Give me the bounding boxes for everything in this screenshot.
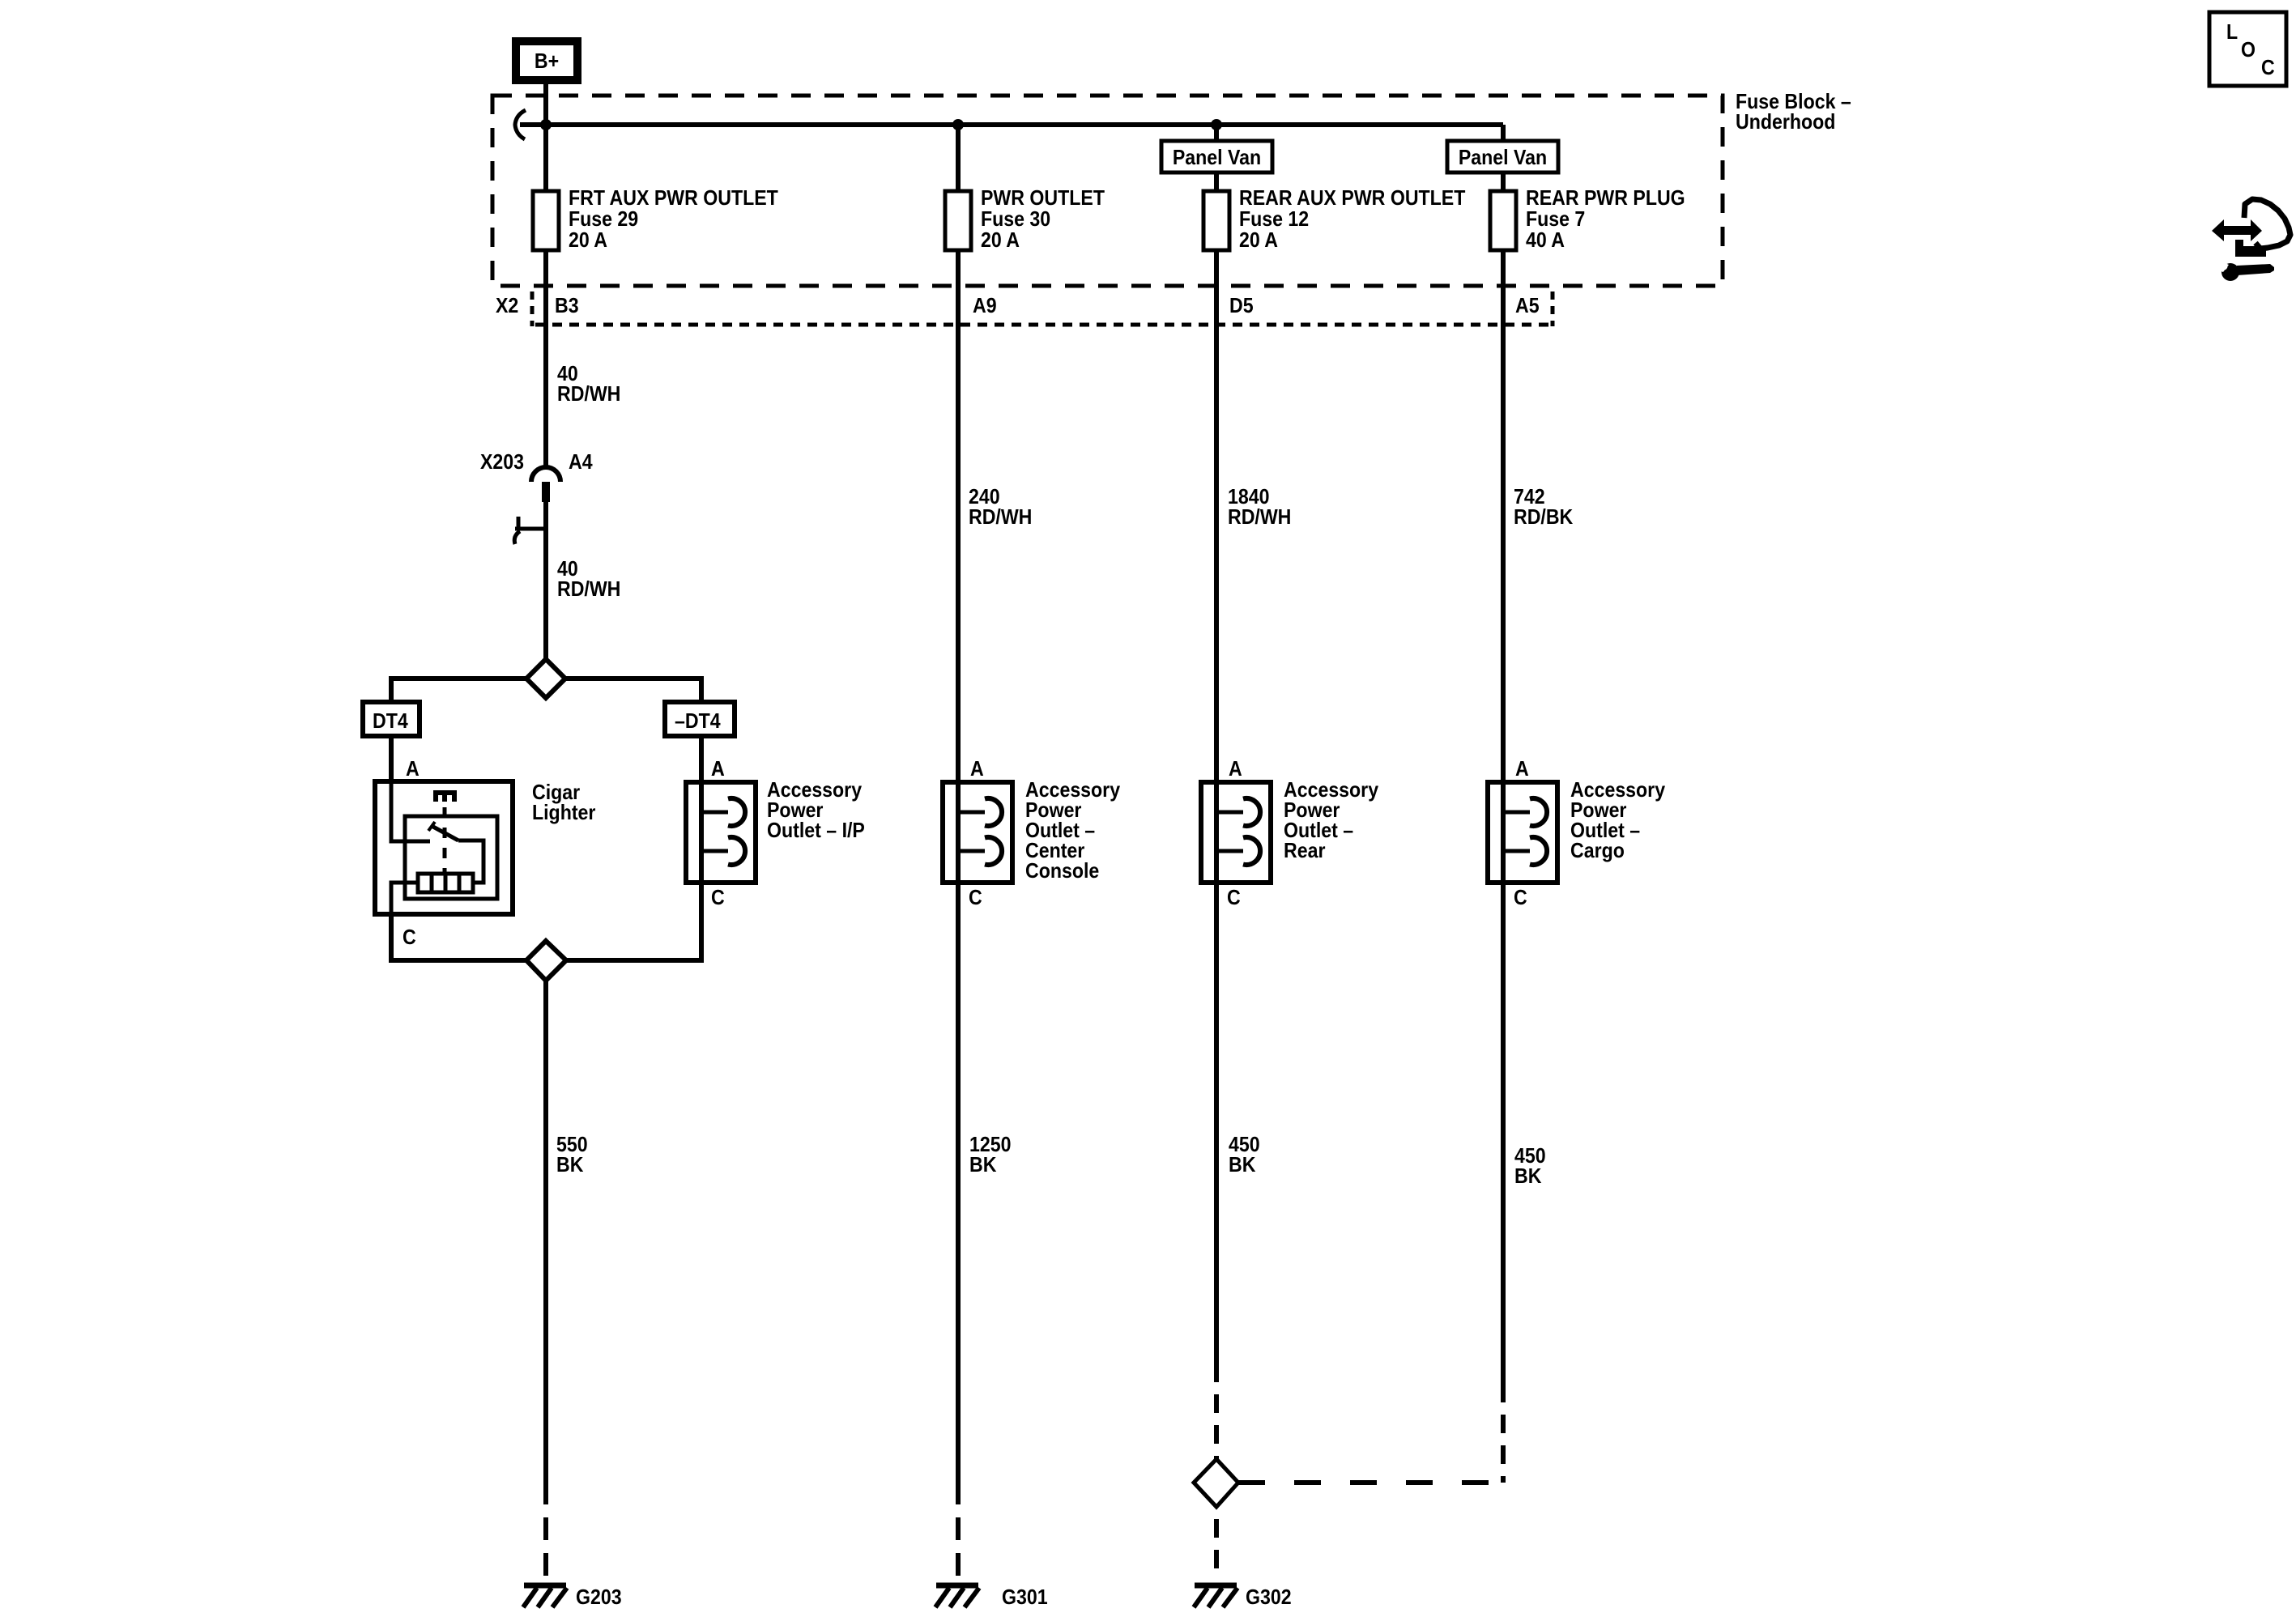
- svg-text:O: O: [2241, 39, 2256, 62]
- svg-text:REAR AUX PWR OUTLET: REAR AUX PWR OUTLET: [1239, 187, 1465, 211]
- svg-text:20 A: 20 A: [981, 229, 1020, 253]
- svg-text:B+: B+: [535, 50, 559, 74]
- svg-text:BK: BK: [556, 1154, 584, 1177]
- svg-text:40 A: 40 A: [1526, 229, 1565, 253]
- svg-text:20 A: 20 A: [1239, 229, 1278, 253]
- svg-text:C: C: [1227, 887, 1241, 910]
- svg-text:–DT4: –DT4: [675, 710, 721, 734]
- svg-text:Fuse 12: Fuse 12: [1239, 208, 1309, 232]
- svg-text:Fuse 7: Fuse 7: [1526, 208, 1585, 232]
- svg-text:D5: D5: [1229, 295, 1254, 318]
- svg-text:FRT AUX PWR OUTLET: FRT AUX PWR OUTLET: [569, 187, 778, 211]
- svg-text:A: A: [970, 758, 984, 781]
- svg-text:G301: G301: [1002, 1586, 1048, 1610]
- svg-text:X2: X2: [496, 295, 518, 318]
- svg-text:L: L: [2226, 21, 2238, 45]
- svg-text:C: C: [1514, 887, 1527, 910]
- svg-text:Panel Van: Panel Van: [1173, 147, 1261, 170]
- svg-text:20 A: 20 A: [569, 229, 607, 253]
- svg-text:RD/WH: RD/WH: [1228, 506, 1291, 530]
- svg-text:PWR OUTLET: PWR OUTLET: [981, 187, 1105, 211]
- svg-text:Fuse 30: Fuse 30: [981, 208, 1050, 232]
- svg-text:X203: X203: [480, 451, 524, 474]
- svg-text:A5: A5: [1515, 295, 1540, 318]
- svg-text:Rear: Rear: [1284, 840, 1326, 863]
- svg-text:C: C: [711, 887, 725, 910]
- svg-text:Panel Van: Panel Van: [1459, 147, 1547, 170]
- svg-text:RD/WH: RD/WH: [557, 383, 620, 406]
- svg-text:BK: BK: [1514, 1165, 1542, 1189]
- svg-text:BK: BK: [1229, 1154, 1256, 1177]
- svg-text:A: A: [711, 758, 725, 781]
- svg-text:Underhood: Underhood: [1736, 111, 1835, 134]
- svg-text:Lighter: Lighter: [532, 802, 596, 825]
- svg-text:A9: A9: [973, 295, 997, 318]
- svg-text:Console: Console: [1025, 860, 1099, 883]
- svg-text:REAR PWR PLUG: REAR PWR PLUG: [1526, 187, 1685, 211]
- svg-text:C: C: [2261, 57, 2275, 80]
- svg-text:G203: G203: [576, 1586, 622, 1610]
- svg-text:A4: A4: [569, 451, 593, 474]
- svg-text:C: C: [969, 887, 982, 910]
- svg-text:A: A: [1515, 758, 1529, 781]
- svg-text:C: C: [403, 926, 416, 950]
- svg-text:Fuse 29: Fuse 29: [569, 208, 638, 232]
- svg-text:Cargo: Cargo: [1570, 840, 1625, 863]
- svg-text:B3: B3: [555, 295, 579, 318]
- svg-text:RD/WH: RD/WH: [969, 506, 1032, 530]
- svg-text:BK: BK: [969, 1154, 997, 1177]
- svg-text:A: A: [1229, 758, 1242, 781]
- svg-text:A: A: [406, 758, 420, 781]
- svg-text:G302: G302: [1246, 1586, 1292, 1610]
- svg-text:RD/WH: RD/WH: [557, 578, 620, 602]
- svg-text:RD/BK: RD/BK: [1514, 506, 1573, 530]
- svg-text:Outlet – I/P: Outlet – I/P: [767, 819, 865, 843]
- svg-text:DT4: DT4: [373, 710, 408, 734]
